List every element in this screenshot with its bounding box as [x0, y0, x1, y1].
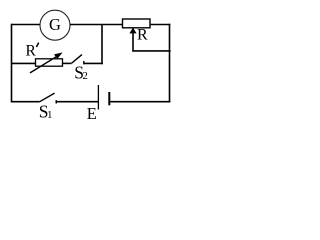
switch S1 blade — [40, 93, 55, 102]
svg-text:R: R — [137, 27, 148, 44]
wire S2 to node B — [84, 62, 103, 64]
wire R wiper to right rail — [132, 50, 170, 52]
potentiometer R wiper arrow — [132, 33, 134, 51]
svg-text:S2: S2 — [74, 62, 88, 82]
wire S1 to bottom-left corner — [12, 101, 40, 103]
rheostat R' arrow — [30, 56, 58, 73]
wire bottom-right (rail to battery) — [110, 101, 171, 103]
wire top-left (corner to G) — [12, 24, 41, 26]
switch S2 blade — [72, 55, 82, 64]
wire G to node A — [70, 24, 103, 26]
switch S1 contact tick — [55, 100, 57, 103]
rheostat R' body — [36, 59, 63, 66]
battery E negative plate — [108, 92, 110, 105]
wire R' to S2 — [63, 62, 72, 64]
svg-text:E: E — [87, 104, 97, 123]
wire left rail to R' — [12, 62, 36, 64]
galvanometer G — [40, 10, 70, 40]
wire battery to S1 — [56, 101, 98, 103]
wire right rail — [169, 24, 171, 103]
wire R to top-right corner — [150, 24, 170, 26]
wire node A to R — [103, 24, 123, 26]
potentiometer R body — [123, 19, 151, 28]
wire left rail — [11, 24, 13, 103]
svg-text:R: R — [26, 43, 37, 60]
switch S2 contact tick — [83, 61, 85, 65]
svg-text:S1: S1 — [39, 101, 53, 121]
wire node B up to node A — [101, 25, 103, 65]
svg-text:G: G — [49, 15, 61, 34]
battery E positive plate — [97, 85, 99, 110]
